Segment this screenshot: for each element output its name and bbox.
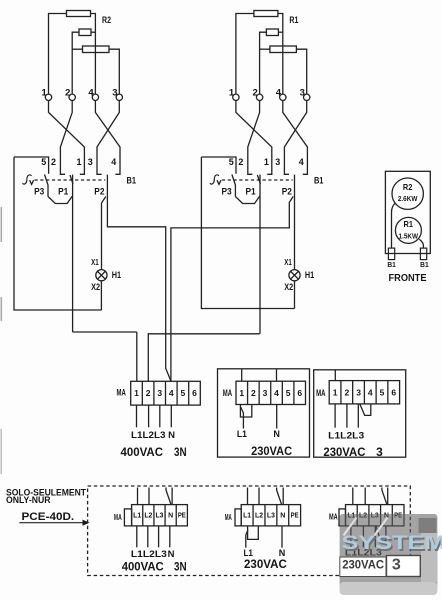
svg-text:L2: L2 [255, 512, 263, 519]
svg-text:5: 5 [41, 157, 46, 167]
svg-text:4: 4 [169, 388, 174, 398]
svg-text:4: 4 [368, 388, 373, 398]
svg-text:3: 3 [300, 88, 305, 99]
svg-text:230VAC: 230VAC [323, 445, 365, 459]
svg-text:B1: B1 [420, 260, 429, 269]
svg-text:1: 1 [333, 388, 338, 398]
svg-text:MA: MA [316, 388, 326, 398]
svg-text:5: 5 [229, 157, 234, 167]
svg-text:2: 2 [146, 388, 151, 398]
svg-text:6: 6 [297, 388, 302, 398]
svg-text:1: 1 [239, 388, 244, 398]
svg-text:R2: R2 [102, 15, 111, 25]
svg-text:SYSTEM: SYSTEM [342, 533, 442, 554]
svg-text:R1: R1 [289, 15, 298, 25]
svg-text:N: N [168, 430, 175, 441]
svg-text:X1: X1 [284, 257, 292, 267]
svg-text:PE: PE [178, 512, 186, 519]
svg-text:2: 2 [344, 388, 349, 398]
svg-text:5: 5 [181, 388, 186, 398]
svg-text:1: 1 [76, 157, 81, 167]
svg-text:1: 1 [229, 88, 235, 99]
svg-text:2: 2 [65, 88, 70, 99]
svg-text:B1: B1 [127, 175, 137, 185]
svg-text:2: 2 [253, 88, 258, 99]
svg-text:6: 6 [391, 388, 396, 398]
svg-text:H1: H1 [305, 270, 314, 280]
svg-text:L1: L1 [243, 512, 251, 519]
svg-text:X2: X2 [91, 282, 100, 293]
svg-text:1: 1 [134, 388, 139, 398]
svg-text:N: N [280, 512, 285, 519]
svg-text:R1: R1 [404, 219, 414, 229]
svg-text:N: N [279, 548, 286, 558]
svg-text:400VAC: 400VAC [121, 445, 164, 459]
svg-text:3: 3 [88, 157, 93, 167]
svg-text:1: 1 [41, 88, 47, 99]
svg-text:L2: L2 [144, 512, 152, 519]
svg-text:4: 4 [299, 157, 304, 167]
svg-text:400VAC: 400VAC [122, 559, 164, 573]
svg-text:L1L2L3: L1L2L3 [328, 430, 364, 441]
svg-text:3: 3 [263, 388, 268, 398]
svg-text:2: 2 [51, 157, 56, 167]
svg-text:L1: L1 [133, 512, 141, 519]
svg-text:3: 3 [392, 557, 401, 574]
svg-text:H1: H1 [112, 270, 121, 280]
svg-text:230VAC: 230VAC [251, 444, 292, 458]
svg-text:PE: PE [291, 512, 299, 519]
svg-text:1: 1 [264, 157, 269, 167]
svg-text:2: 2 [238, 157, 243, 167]
svg-text:6: 6 [192, 388, 197, 398]
svg-text:3: 3 [112, 88, 117, 99]
svg-text:P3: P3 [222, 187, 232, 197]
svg-text:P1: P1 [246, 187, 256, 197]
svg-text:5: 5 [380, 388, 385, 398]
svg-text:MA: MA [223, 388, 233, 398]
svg-text:P2: P2 [94, 187, 104, 197]
svg-text:B1: B1 [387, 260, 396, 269]
svg-text:B1: B1 [314, 175, 324, 185]
svg-text:P2: P2 [282, 187, 292, 197]
svg-text:L1: L1 [243, 548, 253, 558]
svg-text:4: 4 [88, 88, 94, 99]
svg-text:230VAC: 230VAC [342, 558, 384, 572]
svg-text:3: 3 [275, 157, 280, 167]
svg-text:MA: MA [117, 388, 127, 398]
svg-text:L3: L3 [156, 512, 164, 519]
svg-text:X2: X2 [284, 282, 293, 293]
svg-text:MA: MA [225, 512, 232, 522]
svg-text:2: 2 [251, 388, 256, 398]
svg-text:3: 3 [356, 388, 361, 398]
svg-text:R2: R2 [403, 182, 413, 192]
svg-text:PCE-40D.: PCE-40D. [22, 511, 75, 523]
svg-text:P1: P1 [58, 187, 68, 197]
svg-text:P3: P3 [34, 187, 44, 197]
svg-text:5: 5 [286, 388, 291, 398]
svg-text:ONLY-NUR: ONLY-NUR [6, 495, 51, 505]
svg-text:N: N [273, 429, 280, 439]
svg-text:4: 4 [276, 88, 282, 99]
svg-text:230VAC: 230VAC [244, 559, 287, 571]
svg-text:L1: L1 [237, 429, 247, 439]
svg-text:X1: X1 [91, 257, 99, 267]
svg-text:4: 4 [274, 388, 279, 398]
svg-text:3N: 3N [174, 559, 187, 573]
svg-text:4: 4 [111, 157, 116, 167]
svg-text:MA: MA [114, 512, 122, 522]
svg-text:L1L2L3: L1L2L3 [131, 430, 166, 441]
svg-text:L3: L3 [267, 512, 275, 519]
svg-text:3: 3 [376, 445, 383, 459]
svg-text:MA: MA [329, 512, 338, 522]
svg-text:N: N [168, 512, 173, 519]
svg-text:1.5KW: 1.5KW [399, 232, 419, 241]
svg-text:3: 3 [157, 388, 162, 398]
svg-text:FRONTE: FRONTE [389, 272, 427, 284]
svg-text:3N: 3N [174, 445, 187, 459]
svg-text:2.6KW: 2.6KW [398, 194, 418, 203]
